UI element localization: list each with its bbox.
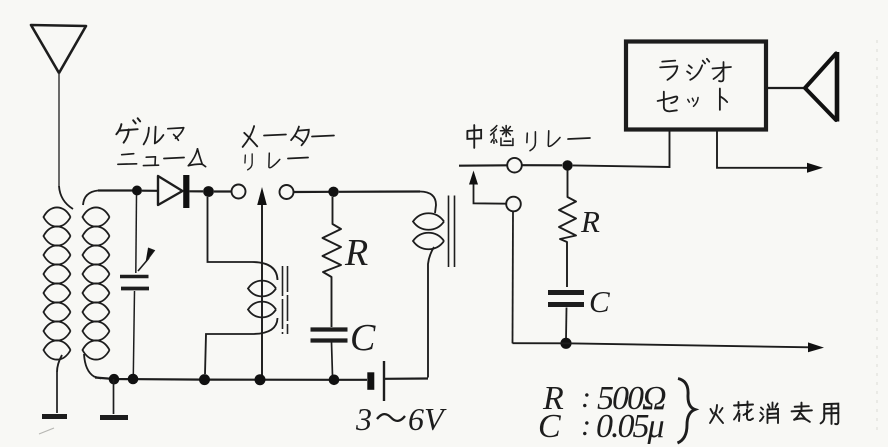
label meter relay line1 [243,126,334,147]
svg-text:C: C [538,408,561,445]
node R2 top [562,160,572,170]
variable capacitor VC1 [120,195,155,376]
label spark suppression [710,402,838,425]
wire bottom rail [95,378,367,380]
node detector input [132,186,142,196]
relay contact circle top [507,158,522,173]
meter relay contact left [232,185,246,199]
node rail varcap junction [128,374,139,385]
label radio set line1 [660,59,731,82]
svg-text:6V: 6V [408,401,447,437]
relay contact arm arrow [469,171,506,204]
meter relay core [283,266,288,334]
relay contact circle bottom [506,197,521,212]
svg-text:C: C [589,284,610,319]
relay fixed contact wire top [459,164,508,167]
transformer T1 primary coil [44,186,74,372]
node rail pointer junction [255,374,266,385]
wire contact bottom to output rail [512,211,515,343]
node rail ground junction [109,374,120,385]
ground G1 [42,372,67,417]
antenna [31,25,86,73]
label germanium line2 [118,149,206,167]
label battery 3~6V [355,401,447,437]
scan artifact right edge [876,40,878,430]
transformer T1 secondary coil [83,191,110,379]
wire radio output with arrow [717,131,823,173]
meter relay contact right [280,185,294,199]
svg-text:R: R [344,232,368,274]
node output rail C2 junction [560,338,571,349]
wire node to meter contact [214,190,232,192]
wire T1 secondary to detector node [98,189,137,191]
label C value [538,408,664,445]
svg-text::: : [581,409,591,442]
svg-text:3: 3 [355,401,372,437]
relay core [449,196,455,268]
diode D1 germanium [142,175,203,208]
speaker [767,52,837,122]
label relay 中継リレー [467,125,590,151]
meter relay pointer arrow [257,187,267,380]
radio set box [626,42,766,130]
meter relay coil [205,197,278,374]
capacitor C1 [311,330,348,377]
wire contact to R2 node [522,164,562,166]
svg-text:R: R [580,204,600,239]
capacitor C2 [548,293,584,341]
resistor R1 [323,197,342,327]
brace [678,379,696,444]
resistor R2 [559,170,576,287]
relay coil primary [413,192,444,378]
svg-text:C: C [350,317,376,359]
label radio set line2 [658,89,728,112]
node R branch top [328,187,338,197]
label meter relay line2 [245,153,308,170]
node rail C1 junction [329,375,340,386]
wire antenna lead [58,73,60,186]
svg-text:0.05μ: 0.05μ [596,408,664,445]
wire node to radio set [573,131,670,167]
scan artifact bottom left [39,428,54,434]
wire R node to relay coil [339,190,420,193]
label germanium line1 [116,118,183,144]
wire meter contact to R node [294,191,334,193]
node rail meter coil junction [199,374,210,385]
battery B1 [367,361,428,401]
wire output rail with arrow [513,342,825,352]
ground G2 [100,379,128,418]
label R value [542,380,666,417]
node diode output [203,186,214,197]
